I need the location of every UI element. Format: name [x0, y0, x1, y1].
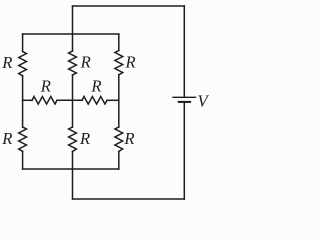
battery V short plate	[179, 101, 190, 103]
svg-text:R: R	[80, 53, 91, 72]
resistor R (right top)	[115, 51, 123, 75]
resistor R (middle top)	[69, 51, 77, 75]
wire: inner top rail	[23, 33, 119, 35]
svg-text:R: R	[40, 77, 51, 96]
resistor R (left top)	[19, 52, 27, 76]
resistor R (middle row left)	[32, 97, 57, 105]
svg-text:R: R	[90, 77, 101, 96]
svg-text:R: R	[1, 129, 12, 148]
wire: outer right above battery	[183, 6, 185, 97]
wire: left column top lead	[22, 34, 24, 52]
wire: outer right below battery	[183, 103, 185, 199]
svg-text:R: R	[79, 129, 90, 148]
wire: middle column top lead	[72, 6, 74, 51]
wire: middle row between resistors	[57, 99, 82, 101]
svg-text:R: R	[1, 53, 12, 72]
wire: middle column bottom lead	[72, 152, 74, 200]
wire: middle column center segment	[72, 75, 74, 127]
wire: outer bottom	[73, 198, 185, 200]
wire: right column center segment	[118, 75, 120, 127]
battery V long plate	[173, 96, 196, 98]
wire: right column bottom lead	[118, 152, 120, 170]
wire: right column top lead	[118, 34, 120, 51]
wire: outer top (battery loop top)	[73, 5, 185, 7]
wire: middle row left lead	[23, 99, 32, 101]
wire: left column bottom lead	[22, 151, 24, 169]
wire: left column center segment	[22, 76, 24, 127]
wire: inner bottom rail	[23, 168, 119, 170]
wire: middle row right lead	[107, 99, 119, 101]
resistor R (right bottom)	[115, 127, 123, 152]
svg-text:R: R	[123, 129, 134, 148]
resistor R (middle bottom)	[69, 127, 77, 152]
svg-text:R: R	[125, 53, 136, 72]
resistor R (middle row right)	[82, 97, 107, 105]
resistor R (left bottom)	[19, 127, 27, 151]
